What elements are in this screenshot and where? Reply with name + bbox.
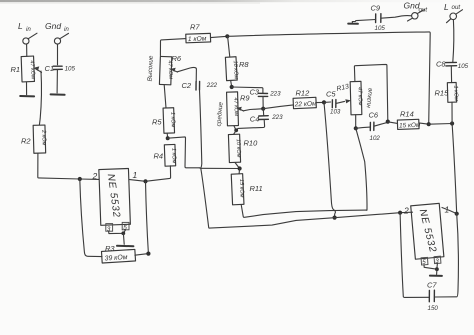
svg-text:105: 105 — [65, 66, 76, 73]
wire mid node down to bottom bus — [201, 168, 210, 228]
svg-text:15 кОм: 15 кОм — [238, 179, 245, 198]
svg-text:2 кОм: 2 кОм — [40, 129, 47, 146]
node D junction C3/C4/wiper/R12 — [261, 107, 265, 111]
node K junction bottom bus / C5 drop — [333, 216, 337, 220]
svg-text:2: 2 — [92, 171, 98, 181]
terminal Gnd in — [45, 21, 69, 65]
svg-text:in: in — [26, 26, 31, 33]
wire R13 bottom to node H — [355, 115, 357, 128]
wire U2 pins to ground — [424, 263, 437, 269]
junction under pin 5 — [121, 231, 125, 235]
node J junction R15 bottom — [450, 121, 454, 125]
ground under R1 — [20, 82, 34, 97]
svg-text:Gnd: Gnd — [404, 1, 420, 11]
svg-text:1 кОм: 1 кОм — [452, 85, 459, 101]
svg-text:1 кОм: 1 кОм — [170, 148, 177, 164]
node junction R7/R8 — [225, 34, 229, 38]
U1 pin 3 — [106, 224, 113, 233]
svg-text:47 кОм: 47 кОм — [356, 87, 363, 106]
svg-text:R8: R8 — [239, 60, 249, 69]
node C junction R8/R9/C3 — [230, 85, 234, 89]
svg-text:105: 105 — [375, 25, 386, 32]
potentiometer R15 — [435, 82, 459, 123]
svg-text:C7: C7 — [427, 281, 437, 290]
resistor R12 — [293, 89, 324, 109]
svg-text:C5: C5 — [326, 90, 336, 99]
node M junction U2 pin1 — [455, 212, 459, 216]
ground under C1 — [51, 93, 65, 95]
svg-text:102: 102 — [370, 135, 381, 142]
ground under U1 — [117, 233, 133, 246]
op-amp U2 NE5532 — [403, 203, 450, 259]
wire U2 pin2 down to C7 left — [400, 213, 429, 298]
capacitor C2 — [182, 81, 218, 168]
svg-text:105: 105 — [458, 63, 469, 70]
resistor R3 — [101, 244, 148, 263]
capacitor C3 — [250, 88, 282, 109]
svg-text:R5: R5 — [152, 118, 162, 127]
capacitor C6 — [356, 111, 388, 143]
svg-text:22 кОм: 22 кОм — [294, 100, 318, 108]
node I junction R14/top wire — [427, 122, 431, 126]
node junction R5/R4 — [166, 136, 170, 140]
U2 pin 3 — [434, 256, 441, 265]
svg-text:R10: R10 — [244, 139, 259, 148]
svg-text:out: out — [452, 4, 461, 11]
svg-text:150: 150 — [428, 305, 439, 312]
capacitor C8 — [436, 60, 469, 83]
svg-text:10 кОм: 10 кОм — [232, 60, 239, 79]
wire R2 bottom to node A — [38, 153, 99, 179]
node B junction (U1 out) — [143, 179, 147, 183]
svg-text:R12: R12 — [296, 89, 311, 98]
svg-text:39 кОм: 39 кОм — [104, 254, 128, 262]
wire bottom bus to U2 pin2 — [210, 212, 413, 228]
wire node A down to R3 left — [80, 179, 102, 257]
svg-text:15 кОм: 15 кОм — [399, 122, 421, 130]
resistor R11 — [231, 169, 367, 218]
ground under U2 — [430, 269, 442, 276]
capacitor C9 — [352, 4, 411, 33]
svg-text:C4: C4 — [250, 115, 260, 124]
wire U1 output pin 1 — [130, 166, 171, 182]
wire R9 wiper to node D — [243, 109, 263, 111]
node L junction U2 pin2 — [398, 211, 402, 215]
resistor R10 — [228, 130, 258, 168]
svg-text:2: 2 — [403, 206, 409, 216]
capacitor C7 — [427, 281, 438, 313]
svg-text:R9: R9 — [240, 94, 250, 103]
resistor R8 — [225, 36, 249, 87]
svg-text:10 кОм: 10 кОм — [235, 139, 242, 158]
potentiometer R6 — [159, 54, 182, 108]
potentiometer R13 — [350, 81, 363, 114]
svg-text:in: in — [64, 26, 69, 33]
ground left of C9 — [348, 23, 358, 25]
node E junction R10/R11 — [238, 166, 242, 170]
svg-text:R2: R2 — [21, 137, 31, 146]
svg-text:R7: R7 — [190, 23, 200, 32]
U1 pin 5 — [122, 222, 129, 231]
svg-text:R15: R15 — [435, 89, 450, 98]
terminal L in — [18, 21, 37, 56]
wire R9/C3 node to R12 — [263, 105, 293, 109]
wire R1 wiper to R2 — [39, 71, 41, 125]
wire node H down to bottom bus — [356, 128, 367, 210]
op-amp U1 NE5532 — [92, 168, 138, 225]
junction under U2 pin 3 — [435, 267, 439, 271]
terminal Gnd out — [404, 1, 428, 22]
svg-text:223: 223 — [269, 91, 281, 98]
wire node F down to bottom bus — [324, 102, 335, 217]
node A junction — [78, 177, 82, 181]
wire R6 wiper to C2 — [177, 67, 196, 81]
svg-text:R11: R11 — [250, 184, 263, 193]
resistor R2 — [21, 125, 47, 153]
wire mid node to R10/R11 junction — [199, 167, 239, 170]
svg-text:Gnd: Gnd — [45, 21, 61, 31]
node G junction C6/R14/R13top — [386, 120, 390, 124]
potentiometer R1 — [11, 56, 42, 82]
wire node I to node J — [429, 123, 452, 126]
svg-text:Высокие: Высокие — [147, 55, 155, 82]
terminal L out — [444, 2, 463, 62]
node H junction R13/C6 — [354, 126, 358, 130]
capacitor C5 — [324, 90, 341, 116]
resistor R7 — [160, 23, 227, 56]
wire long top feedback to node D — [227, 32, 430, 124]
wire R5/R4 junction to mid node — [168, 137, 200, 168]
U2 pin 5 — [421, 257, 428, 266]
node F junction R12/C5 — [322, 100, 326, 104]
wire node J down to U2 pin1 — [452, 124, 457, 214]
svg-text:C1: C1 — [45, 64, 55, 73]
svg-text:1 кОм: 1 кОм — [188, 35, 207, 43]
svg-text:C6: C6 — [369, 111, 379, 120]
node junction R9/R10/C4 — [234, 128, 238, 132]
svg-text:103: 103 — [330, 109, 341, 116]
svg-text:223: 223 — [271, 114, 283, 121]
svg-text:R1: R1 — [11, 65, 21, 74]
resistor R14 — [388, 110, 429, 130]
wire C5 to R13 wiper — [336, 99, 351, 103]
resistor R4 — [154, 144, 177, 166]
wire U1 pins 3,5 to ground — [109, 230, 126, 234]
wire U2 pin1 to node M — [442, 208, 457, 214]
wire U2 pin1 down to C7 right — [435, 214, 459, 297]
capacitor C4 — [236, 109, 283, 131]
capacitor C1 — [45, 64, 76, 93]
svg-text:R4: R4 — [154, 152, 164, 161]
resistor R5 — [152, 108, 176, 138]
svg-text:222: 222 — [206, 82, 218, 89]
svg-text:C3: C3 — [250, 88, 260, 97]
wire R13 top loop to node G — [354, 64, 387, 120]
svg-text:47 кОм: 47 кОм — [232, 97, 239, 116]
svg-text:1: 1 — [133, 170, 138, 180]
node junction R3 right — [146, 252, 150, 256]
svg-text:1 кОм: 1 кОм — [169, 112, 176, 128]
wire feedback U1 out down to R3 right — [146, 181, 149, 253]
wire node C to C3 top — [232, 87, 263, 93]
svg-text:C2: C2 — [182, 81, 192, 90]
svg-text:C8: C8 — [436, 60, 446, 69]
svg-text:C9: C9 — [371, 4, 381, 13]
svg-text:L: L — [444, 2, 449, 12]
svg-text:R14: R14 — [400, 110, 414, 119]
svg-text:L: L — [18, 21, 23, 31]
potentiometer R9 — [227, 92, 251, 130]
